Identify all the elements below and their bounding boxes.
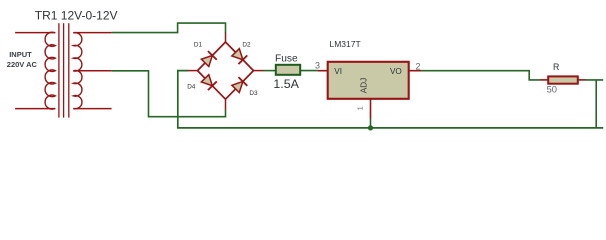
svg-text:220V AC: 220V AC [7,60,38,69]
LM317 pin VI stub [318,70,328,72]
bridge top pin stub [225,32,227,42]
regulator LM317 body [328,62,409,99]
fuse label [275,53,298,64]
svg-text:R: R [553,62,559,72]
resistor value 50 [547,84,557,95]
transformer TR1 secondary top terminal [73,32,111,34]
diode D4 [187,71,225,100]
transformer TR1 primary top terminal [15,32,55,34]
LM317 pin VO stub [409,70,422,72]
wire center tap to bridge bottom vertex [112,71,226,117]
diode D1 [194,42,226,71]
junction dot ADJ-ground [368,125,373,130]
svg-text:INPUT: INPUT [9,50,32,59]
diode D2 [226,42,254,71]
resistor R right stub [578,79,586,81]
transformer TR1 secondary center tap terminal [73,70,111,72]
transformer TR1 core [59,23,69,117]
wire bridge left vertex to ground rail [178,71,603,128]
svg-text:TR1 12V-0-12V: TR1 12V-0-12V [35,9,118,23]
wire LM317 ADJ pin to ground rail [370,118,372,128]
svg-text:D1: D1 [194,42,203,49]
label LM317T [330,39,361,49]
pin number 3 [315,60,320,70]
LM317 text VI [334,67,342,76]
fuse body [276,65,300,75]
wire LM317 VO to resistor R [421,71,540,80]
svg-text:1.5A: 1.5A [273,77,299,91]
transformer TR1 secondary lower coil [73,70,82,108]
LM317 text ADJ [360,78,369,93]
svg-text:ADJ: ADJ [360,78,369,93]
svg-text:VO: VO [390,67,402,76]
LM317 text VO [390,67,402,76]
resistor R left stub [540,79,548,81]
svg-text:D3: D3 [249,90,258,97]
svg-text:2: 2 [416,61,421,71]
transformer TR1 secondary upper coil [73,33,82,71]
wire resistor R to ground rail [586,80,604,128]
diode D3 [226,71,259,100]
svg-text:D4: D4 [187,84,196,91]
resistor R body [548,76,578,83]
wire transformer top to bridge top vertex [112,23,226,32]
svg-text:1: 1 [356,106,365,110]
svg-text:50: 50 [547,84,557,95]
wire fuse to LM317 VI pin [300,70,317,72]
bridge bottom pin stub [225,99,227,110]
svg-text:D2: D2 [242,42,251,49]
label INPUT 220V AC [7,50,38,69]
pin number 2 [416,61,421,71]
svg-text:Fuse: Fuse [275,53,298,64]
svg-text:VI: VI [334,67,342,76]
transformer TR1 secondary bottom terminal [73,108,111,110]
resistor label R [553,62,559,72]
LM317 pin ADJ stub [370,99,372,118]
wire bridge right vertex to fuse [263,70,276,72]
bridge right pin stub [254,70,264,72]
svg-text:3: 3 [315,60,320,70]
bridge left pin stub [188,70,198,72]
svg-text:LM317T: LM317T [330,39,361,49]
pin number 1 [356,106,365,110]
transformer TR1 primary coil [45,32,55,109]
transformer TR1 primary bottom terminal [15,108,55,110]
fuse value 1.5A [273,77,299,91]
transformer TR1 label [35,9,118,23]
